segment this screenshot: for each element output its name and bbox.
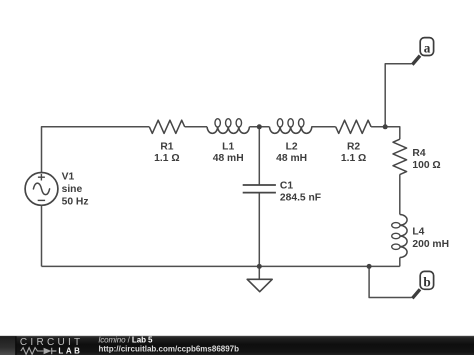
wire L2 to R2 xyxy=(311,126,335,128)
terminal a xyxy=(412,56,420,65)
node: bottom junction ground xyxy=(257,264,262,269)
wire terminal b branch xyxy=(369,266,412,297)
svg-text:1.1 Ω: 1.1 Ω xyxy=(341,153,366,164)
svg-text:b: b xyxy=(423,274,430,289)
svg-text:48 mH: 48 mH xyxy=(213,153,244,164)
resistor R1 xyxy=(149,120,184,133)
svg-text:sine: sine xyxy=(62,184,83,195)
logo resistor zigzag xyxy=(21,348,44,355)
capacitor C1 xyxy=(243,185,276,193)
node: top junction to terminal a xyxy=(383,124,388,129)
wire C1 branch upper xyxy=(258,127,260,185)
terminal b xyxy=(412,289,420,298)
wire top-left: V1 top to R1 xyxy=(42,127,150,173)
svg-text:L4: L4 xyxy=(412,226,424,237)
svg-text:C1: C1 xyxy=(280,181,293,192)
svg-text:50 Hz: 50 Hz xyxy=(62,197,89,208)
svg-text:1.1 Ω: 1.1 Ω xyxy=(154,153,179,164)
svg-text:R2: R2 xyxy=(347,141,360,152)
svg-text:L2: L2 xyxy=(286,141,298,152)
wire R2 to top-right corner down to R4 xyxy=(371,127,400,139)
svg-text:48 mH: 48 mH xyxy=(276,153,307,164)
svg-text:100 Ω: 100 Ω xyxy=(412,160,440,171)
svg-text:200 mH: 200 mH xyxy=(412,239,449,250)
inductor L2 xyxy=(270,127,312,134)
wire R1 to L1 xyxy=(185,126,207,128)
wire terminal a branch xyxy=(385,64,411,127)
footer bar xyxy=(0,336,474,355)
svg-text:a: a xyxy=(424,41,431,56)
svg-text:R1: R1 xyxy=(160,141,173,152)
node: bottom junction to terminal b xyxy=(367,264,372,269)
inductor L1 xyxy=(207,127,249,134)
resistor R4 xyxy=(393,139,407,174)
svg-text:LAB: LAB xyxy=(58,346,80,355)
wire C1 branch lower xyxy=(258,193,260,267)
svg-text:http://circuitlab.com/ccpb6ms8: http://circuitlab.com/ccpb6ms86897b xyxy=(99,345,240,354)
wire L1 to node, node to L2 xyxy=(249,126,269,128)
inductor L4 xyxy=(400,215,407,258)
svg-text:L1: L1 xyxy=(222,141,234,152)
logo diode xyxy=(44,348,52,355)
wire L4 to bottom rail xyxy=(399,258,401,267)
svg-text:lcomino / Lab 5: lcomino / Lab 5 xyxy=(99,335,154,344)
voltage source V1 xyxy=(25,173,58,206)
svg-text:V1: V1 xyxy=(62,172,75,183)
ground xyxy=(247,279,272,291)
wire V1 bottom to bottom-left corner xyxy=(41,205,43,266)
ground stem xyxy=(258,266,260,279)
wire bottom rail xyxy=(42,265,400,267)
svg-text:284.5 nF: 284.5 nF xyxy=(280,192,321,203)
wire R4 to L4 xyxy=(399,174,401,214)
resistor R2 xyxy=(336,120,371,133)
node: top junction to C1 xyxy=(257,124,262,129)
svg-text:R4: R4 xyxy=(412,148,425,159)
